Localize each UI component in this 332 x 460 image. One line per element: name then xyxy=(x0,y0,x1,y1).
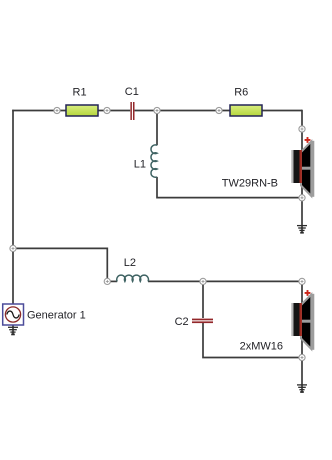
node left of R1 xyxy=(54,107,60,113)
node junction C2 xyxy=(200,278,206,284)
node lower speaker bottom xyxy=(299,354,305,360)
node right of R1 xyxy=(104,107,110,113)
svg-text:Generator 1: Generator 1 xyxy=(27,309,86,321)
node L2 input xyxy=(104,278,110,284)
resistor R6 xyxy=(230,105,262,116)
wire upper ground stem xyxy=(301,198,303,233)
AC source Generator 1 xyxy=(3,304,24,325)
resistor R1 xyxy=(66,105,98,116)
wire L1 bottom and upper loop bottom xyxy=(157,177,302,198)
ground at lower speaker xyxy=(297,385,307,392)
node upper speaker top xyxy=(299,126,305,132)
wire generator ground stem xyxy=(12,325,14,335)
inductor L2 xyxy=(117,275,149,281)
node left of R6 xyxy=(216,107,222,113)
wire left rail xyxy=(12,110,14,305)
node junction C1 / L1 xyxy=(154,107,160,113)
svg-text:R6: R6 xyxy=(234,87,248,99)
speaker TW29RN-B xyxy=(291,137,314,197)
wire C2 branch top xyxy=(202,281,204,318)
wire lower speaker rail xyxy=(301,281,303,357)
node lower speaker top xyxy=(299,278,305,284)
wire right rail upper speaker xyxy=(301,110,303,198)
wire mid rail to L2 xyxy=(13,248,107,281)
wire L2 lead-in xyxy=(107,280,117,282)
wire L1 branch top xyxy=(156,111,158,146)
wire lower ground stem xyxy=(301,358,303,393)
inductor L1 xyxy=(151,145,157,177)
wire R1 to C1 xyxy=(98,110,130,112)
wire top-left horizontal xyxy=(12,110,66,112)
speaker 2xMW16 xyxy=(291,290,314,350)
svg-text:L1: L1 xyxy=(134,159,146,171)
wire R6 to top-right corner xyxy=(262,110,302,112)
svg-text:L2: L2 xyxy=(124,257,136,269)
node upper speaker bottom xyxy=(299,195,305,201)
svg-text:TW29RN-B: TW29RN-B xyxy=(222,177,278,189)
wire L2 to lower speaker xyxy=(148,280,302,282)
capacitor C1 xyxy=(130,102,134,120)
capacitor C2 xyxy=(192,319,213,324)
wire C2 bottom and lower loop bottom xyxy=(203,323,302,358)
node left rail junction xyxy=(10,245,16,251)
svg-text:C1: C1 xyxy=(125,86,139,98)
svg-text:R1: R1 xyxy=(73,86,87,98)
svg-text:C2: C2 xyxy=(175,316,189,328)
ground at upper speaker xyxy=(297,226,307,233)
wire C1 to R6 xyxy=(135,110,230,112)
svg-text:2xMW16: 2xMW16 xyxy=(240,340,283,352)
ground at generator xyxy=(8,327,18,334)
